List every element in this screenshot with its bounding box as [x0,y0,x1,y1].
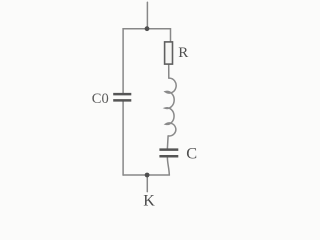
capacitor C0 plates [113,94,131,100]
node bottom junction [145,173,150,178]
wire top lead [146,2,148,28]
inductor coil [165,78,176,136]
wire bottom lead to K [146,175,148,191]
wire left branch lower [122,102,124,175]
wire inductor to capacitor C [166,136,169,148]
wire top horizontal and corners [123,29,170,93]
wire bottom horizontal [123,174,169,176]
wire capacitor C to bottom corner [167,158,169,175]
svg-text:C: C [186,143,197,162]
svg-text:R: R [178,45,188,61]
node top junction [145,26,150,31]
resistor R body [165,42,173,64]
svg-text:K: K [143,192,155,209]
svg-text:C0: C0 [92,91,109,107]
capacitor C plates [159,150,178,157]
wire resistor to inductor [168,64,170,78]
